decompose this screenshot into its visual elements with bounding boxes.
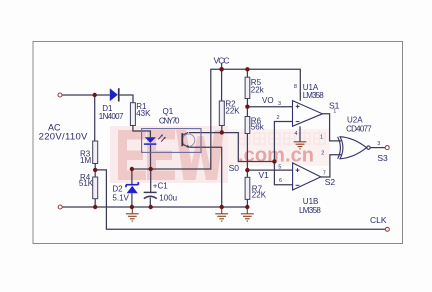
svg-text:8: 8 bbox=[294, 84, 297, 90]
svg-text:D2: D2 bbox=[112, 185, 123, 194]
svg-text:43K: 43K bbox=[136, 109, 151, 118]
svg-text:3: 3 bbox=[278, 101, 281, 107]
svg-text:5: 5 bbox=[278, 165, 281, 171]
svg-text:U2A: U2A bbox=[347, 116, 363, 125]
svg-text:5.1V: 5.1V bbox=[112, 194, 129, 203]
svg-text:S3: S3 bbox=[377, 153, 388, 163]
svg-text:6: 6 bbox=[279, 178, 282, 184]
svg-text:CNY70: CNY70 bbox=[159, 117, 180, 126]
svg-text:U1B: U1B bbox=[303, 197, 319, 206]
svg-text:S2: S2 bbox=[325, 177, 336, 187]
svg-text:7: 7 bbox=[323, 171, 326, 177]
svg-text:22k: 22k bbox=[251, 86, 265, 95]
svg-text:LM358: LM358 bbox=[299, 206, 321, 215]
svg-text:.com.cn: .com.cn bbox=[238, 145, 314, 167]
svg-text:1M: 1M bbox=[80, 156, 91, 165]
svg-text:4: 4 bbox=[294, 131, 297, 137]
svg-text:1: 1 bbox=[320, 134, 323, 140]
svg-text:220V/110V: 220V/110V bbox=[39, 132, 88, 143]
svg-text:100u: 100u bbox=[159, 194, 177, 203]
svg-text:CLK: CLK bbox=[370, 215, 387, 225]
svg-text:51K: 51K bbox=[79, 179, 94, 188]
svg-text:2: 2 bbox=[321, 151, 324, 157]
svg-text:56k: 56k bbox=[251, 123, 265, 132]
svg-text:Q1: Q1 bbox=[163, 107, 174, 116]
svg-text:S0: S0 bbox=[229, 163, 240, 173]
svg-text:+C1: +C1 bbox=[153, 182, 168, 191]
svg-text:2: 2 bbox=[277, 115, 280, 121]
svg-text:V1: V1 bbox=[259, 170, 270, 180]
svg-text:1: 1 bbox=[333, 108, 336, 114]
svg-text:VO: VO bbox=[262, 96, 274, 105]
svg-text:22K: 22K bbox=[225, 106, 240, 115]
svg-text:VCC: VCC bbox=[214, 55, 230, 65]
svg-text:CD4077: CD4077 bbox=[346, 124, 372, 133]
svg-text:3: 3 bbox=[377, 141, 380, 147]
svg-text:22K: 22K bbox=[252, 191, 267, 200]
svg-text:1N4007: 1N4007 bbox=[99, 112, 124, 121]
svg-text:LM358: LM358 bbox=[303, 91, 325, 100]
